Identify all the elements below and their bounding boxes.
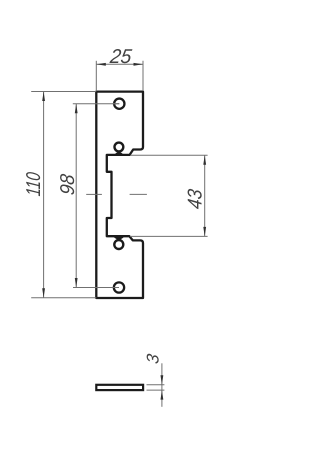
- dim 25: left arrow: [96, 63, 106, 66]
- dim 98: top arrow: [75, 104, 78, 114]
- dim 3: upper arrow (pointing down): [161, 375, 164, 385]
- dim 25: dimension line: [96, 63, 143, 65]
- hole 2 (upper notch hole): [115, 143, 124, 152]
- dim 110: dimension line: [43, 92, 45, 298]
- dim 43: dimension line: [204, 155, 206, 236]
- dim 3: dimension line: [161, 363, 163, 407]
- dim 3: top extension line: [147, 384, 165, 386]
- dim 3: bottom extension line: [147, 389, 165, 391]
- svg-text:25: 25: [108, 46, 133, 68]
- faceplate outline (front view): [96, 92, 143, 298]
- svg-text:3: 3: [143, 352, 162, 365]
- dim 98: leader into hole 4: [113, 287, 120, 289]
- hole 4 (bottom screw hole): [114, 282, 124, 292]
- dim 98: dimension line: [75, 104, 77, 288]
- dim 98: bottom arrow: [75, 278, 78, 288]
- hole 1 (top screw hole): [114, 99, 124, 109]
- dim 98: bottom extension line: [73, 287, 119, 289]
- hole 3 (lower notch hole): [114, 240, 123, 249]
- dim 43: top arrow: [203, 155, 206, 165]
- merge fillet over hole 3: [113, 237, 124, 240]
- dim 110: bottom arrow: [42, 288, 45, 298]
- dim 43: bottom extension line: [130, 235, 208, 237]
- svg-text:98: 98: [58, 173, 80, 197]
- centerline right segment: [130, 193, 147, 195]
- dim 25: extension line left: [95, 61, 97, 91]
- svg-text:110: 110: [22, 171, 45, 197]
- side view plate (edge view): [96, 385, 143, 390]
- dim 3: lower arrow (pointing up): [161, 390, 164, 400]
- dim 110: bottom extension line: [31, 297, 96, 299]
- merge fillet under hole 2: [113, 152, 124, 156]
- dim 98: leader into hole 1: [113, 103, 120, 105]
- dim 25: right arrow: [134, 63, 144, 66]
- dim 98: top extension line: [73, 103, 120, 105]
- dim 110: top arrow: [42, 92, 45, 102]
- dim 25: extension line right: [142, 61, 144, 91]
- dim 110: top extension line: [31, 91, 96, 93]
- centerline left segment: [86, 193, 102, 195]
- dim 43: top extension line: [131, 154, 208, 156]
- dim 43: bottom arrow: [203, 227, 206, 237]
- svg-text:43: 43: [184, 188, 206, 211]
